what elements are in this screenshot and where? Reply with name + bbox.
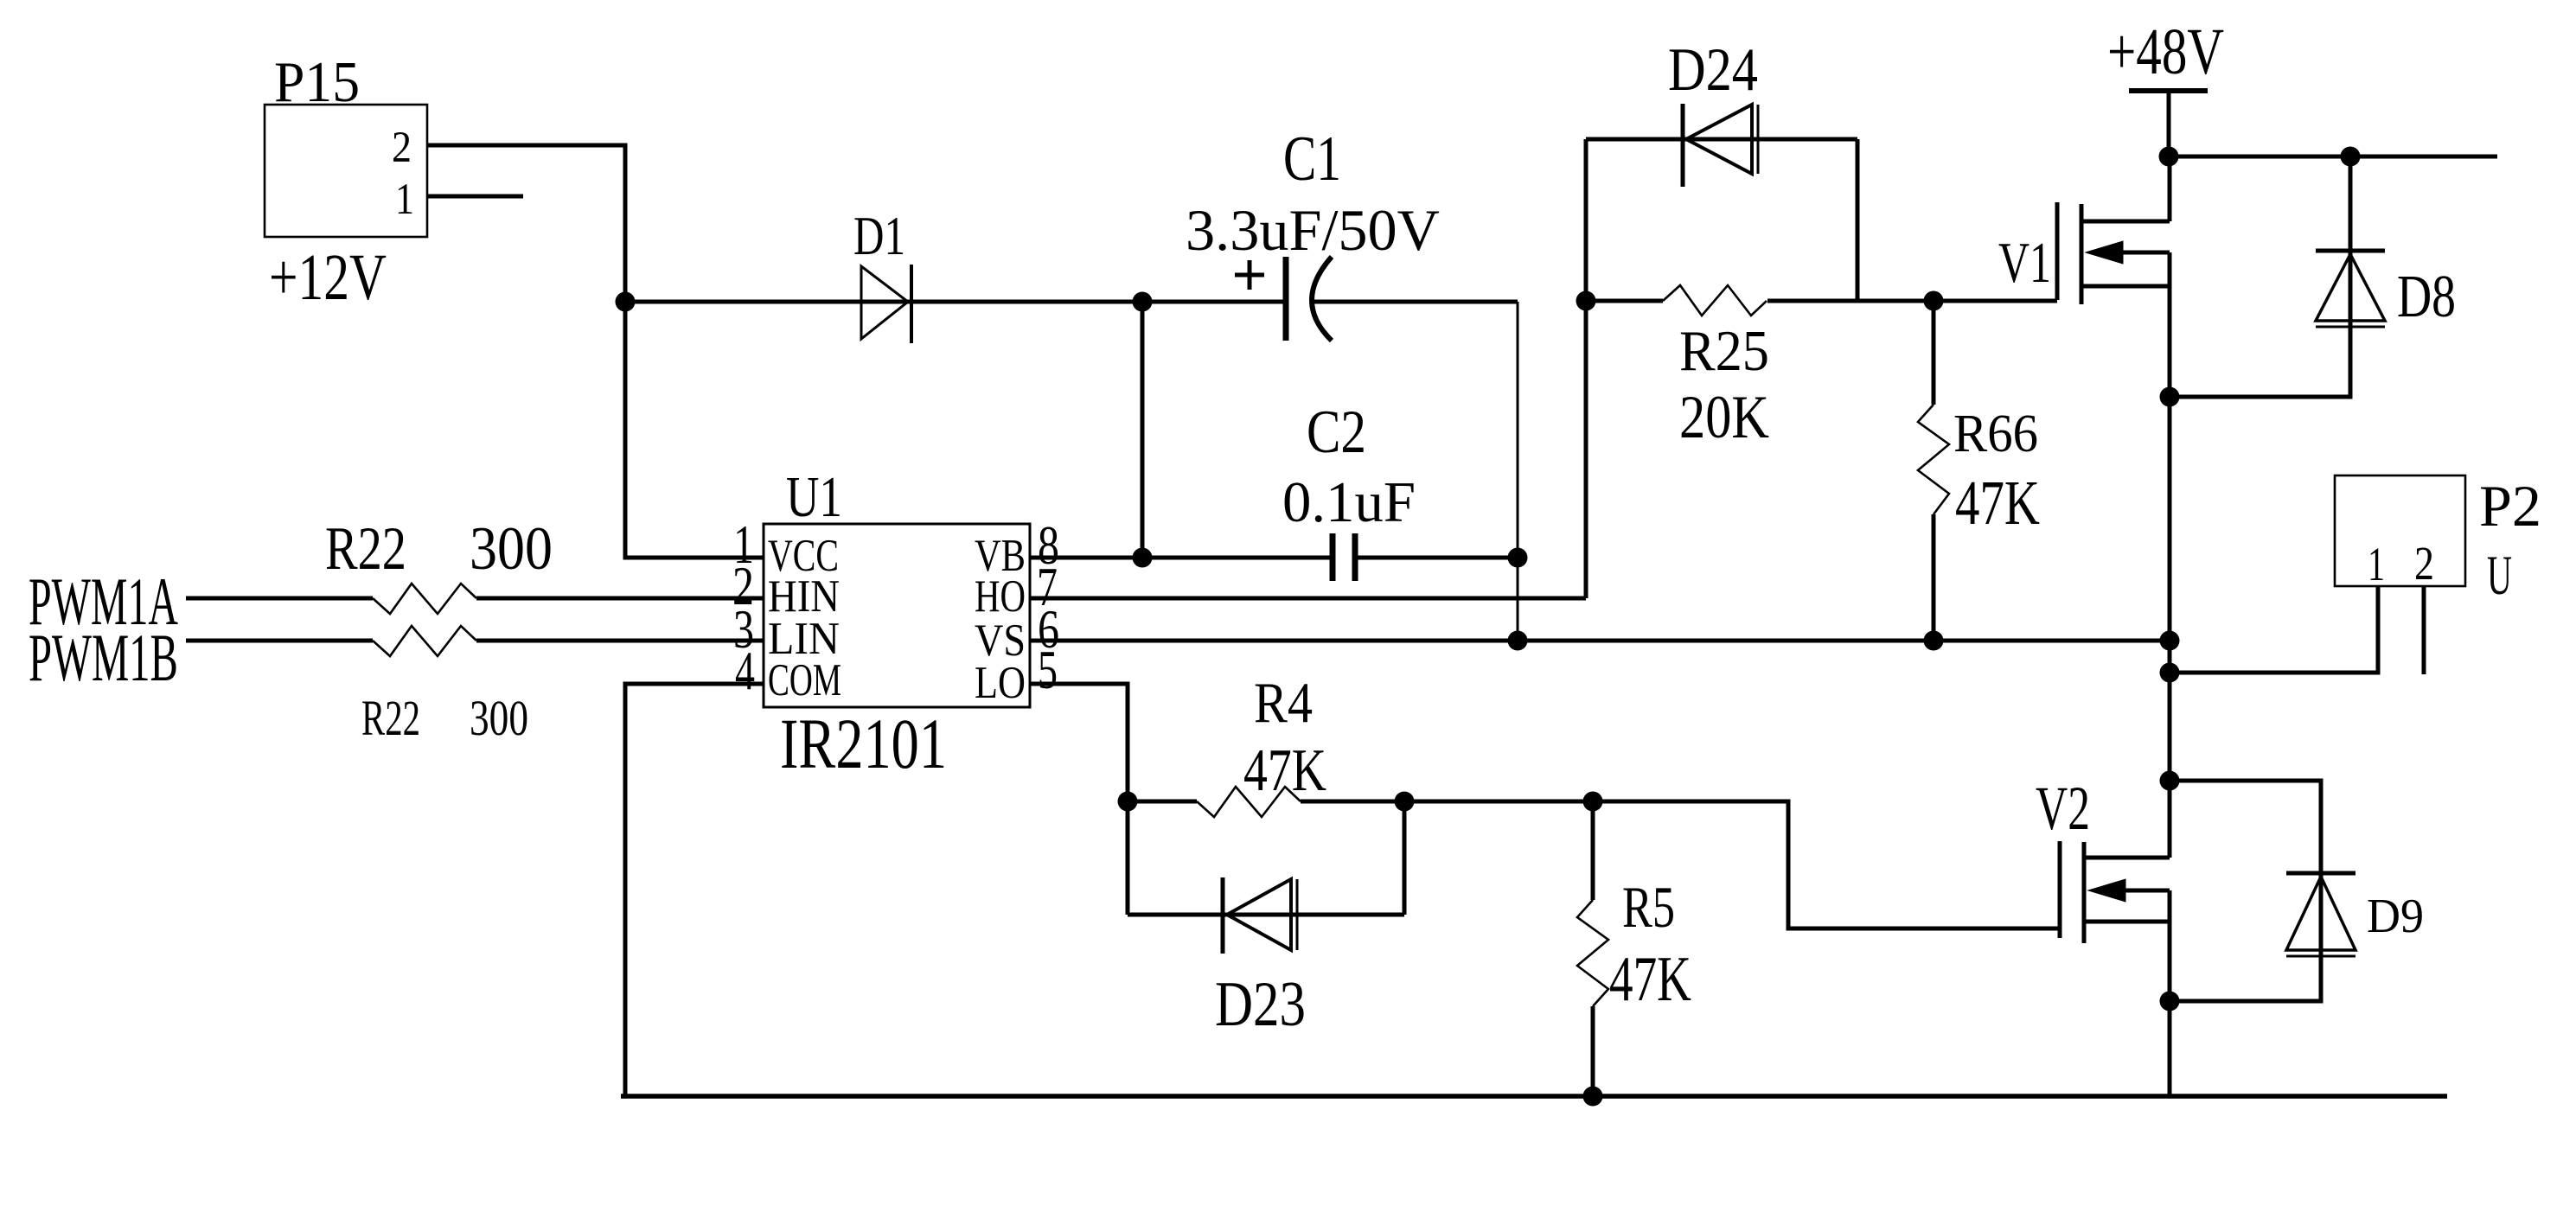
label R22 300 (upper) xyxy=(325,515,553,583)
label U1 xyxy=(786,465,842,529)
wire D9 anode branch xyxy=(2170,950,2321,1001)
wire R5 top lead xyxy=(1591,801,1595,900)
wire D24 cathode drop xyxy=(1856,139,1860,301)
svg-text:COM: COM xyxy=(768,655,841,705)
wire PWM1B to R22 lower xyxy=(186,639,373,643)
junction R5 top / LO row xyxy=(1583,792,1603,812)
label P2 xyxy=(2479,473,2541,539)
svg-text:5: 5 xyxy=(1038,640,1058,700)
wire P15 pin 2 to +12V node xyxy=(427,145,625,302)
wire R25 right lead to V1 gate xyxy=(1767,299,2057,303)
wire D8 anode to V1 source node xyxy=(2170,326,2350,397)
wire D23 right riser xyxy=(1403,801,1407,915)
diode D24 xyxy=(1683,104,1758,187)
wire D9 cathode branch (through diode) xyxy=(2170,781,2321,950)
svg-text:4: 4 xyxy=(735,641,755,701)
wire R4 right lead xyxy=(1301,800,1404,804)
junction R25 right / R66 top xyxy=(1924,291,1944,311)
pin 7 number xyxy=(1037,557,1058,617)
junction R4 right / D23 xyxy=(1395,792,1415,812)
junction D1 cathode / VB riser xyxy=(1133,292,1153,312)
pin number 1 of P2 xyxy=(2368,538,2385,590)
svg-text:D24: D24 xyxy=(1668,36,1758,104)
svg-text:C1: C1 xyxy=(1283,124,1341,195)
resistor R66 xyxy=(1918,405,1949,514)
net label +12V xyxy=(269,241,387,314)
pin name LIN xyxy=(768,614,840,664)
net label PWM1B xyxy=(29,620,178,695)
diode D8 xyxy=(2316,251,2385,327)
label C1 xyxy=(1283,124,1341,195)
svg-text:2: 2 xyxy=(392,124,412,172)
resistor R22 (upper) xyxy=(373,584,476,614)
pin 2 number xyxy=(732,556,754,616)
ground rail xyxy=(621,1094,2447,1099)
label V1 xyxy=(1998,231,2051,295)
pin name LO xyxy=(975,658,1026,708)
wire +48V lead xyxy=(2167,91,2171,156)
label D23 xyxy=(1215,969,1306,1040)
label IR2101 xyxy=(780,704,947,783)
diode D23 xyxy=(1223,877,1297,954)
diode D1 xyxy=(861,265,911,343)
pin name VB xyxy=(975,531,1026,581)
svg-text:20K: 20K xyxy=(1679,384,1769,451)
svg-text:R5: R5 xyxy=(1622,874,1675,940)
label R66 xyxy=(1953,405,2038,463)
value 47K of R5 xyxy=(1609,944,1691,1015)
wire R66 top lead xyxy=(1932,301,1936,405)
junction V1 source / D8 anode row xyxy=(2160,387,2180,407)
net label U xyxy=(2487,545,2512,607)
pin 1 number xyxy=(733,514,754,575)
wire V1 drain riser xyxy=(2168,156,2172,221)
capacitor C2 xyxy=(1333,533,1355,581)
wire R22 to U1 HIN pin 2 xyxy=(476,597,764,601)
wire V1 source node to P2 pin 1 xyxy=(2170,586,2378,673)
junction VS row / trunk xyxy=(2160,631,2180,651)
svg-text:2: 2 xyxy=(2414,537,2434,590)
svg-text:47K: 47K xyxy=(1609,944,1691,1015)
svg-text:LO: LO xyxy=(975,658,1026,708)
label D24 xyxy=(1668,36,1758,104)
wire R25 left lead xyxy=(1586,299,1663,303)
pin name HO xyxy=(975,571,1026,622)
pin 5 number xyxy=(1038,640,1058,700)
wire P15 pin 1 stub xyxy=(427,195,523,199)
net label +48V xyxy=(2107,16,2224,88)
label P15 xyxy=(274,50,360,114)
pin 3 number xyxy=(733,599,754,660)
pin name COM xyxy=(768,655,841,705)
label V2 xyxy=(2036,774,2090,843)
label D1 xyxy=(853,205,905,266)
pin number 2 of P15 xyxy=(392,124,412,172)
wire D23 left riser xyxy=(1126,801,1130,915)
svg-text:R22: R22 xyxy=(361,690,420,746)
resistor R22 (lower) xyxy=(373,626,476,656)
svg-text:D23: D23 xyxy=(1215,969,1306,1040)
wire HO riser xyxy=(1584,139,1588,598)
value 3.3uF/50V xyxy=(1186,197,1440,263)
connector P15 xyxy=(265,105,427,237)
svg-text:D1: D1 xyxy=(853,205,905,266)
label R5 xyxy=(1622,874,1675,940)
connector P2 xyxy=(2335,475,2465,586)
svg-text:R66: R66 xyxy=(1953,405,2038,463)
label R4 xyxy=(1254,671,1313,735)
wire R66 bottom lead xyxy=(1932,514,1936,641)
power symbol +48V xyxy=(2129,88,2208,93)
label D9 xyxy=(2367,890,2424,943)
svg-text:P15: P15 xyxy=(274,50,360,114)
wire +12V node down to U1 VCC pin 1 xyxy=(625,302,764,558)
wire PWM1A to R22 xyxy=(186,597,373,601)
diode D9 xyxy=(2286,873,2355,956)
junction +12V node xyxy=(616,292,636,312)
svg-text:1: 1 xyxy=(395,175,414,224)
svg-text:R22: R22 xyxy=(325,515,406,583)
junction C2 right / VS riser xyxy=(1508,548,1528,568)
wire D8 cathode riser (through diode) xyxy=(2349,156,2353,326)
svg-text:R4: R4 xyxy=(1254,671,1313,735)
wire R22 lower to U1 LIN pin 3 xyxy=(476,639,764,643)
pin name HIN xyxy=(768,571,840,622)
label R25 xyxy=(1679,319,1769,383)
svg-text:IR2101: IR2101 xyxy=(780,704,947,783)
wire D23 row (through diode) xyxy=(1128,913,1404,917)
wire C1 negative plate to VS riser xyxy=(1314,300,1518,304)
junction HO riser / R25 left xyxy=(1576,291,1596,311)
svg-text:1: 1 xyxy=(2368,538,2385,590)
resistor R4 xyxy=(1197,787,1301,817)
svg-text:C2: C2 xyxy=(1307,399,1366,466)
junction P2 row / trunk xyxy=(2160,663,2180,683)
capacitor C1 (polarized) xyxy=(1235,257,1332,341)
wire +12V node to C1 positive plate (through D1) xyxy=(625,300,1283,304)
pin 4 number xyxy=(735,641,755,701)
pin name VCC xyxy=(768,531,839,581)
svg-text:47K: 47K xyxy=(1955,468,2040,538)
wire U1 VB pin 8 to C2 left plate xyxy=(1030,556,1333,560)
svg-text:+12V: +12V xyxy=(269,241,387,314)
svg-text:300: 300 xyxy=(470,515,553,583)
junction VB riser / VB row xyxy=(1133,548,1153,568)
net label PWM1A xyxy=(29,564,178,639)
label D8 xyxy=(2397,264,2456,330)
value 47K of R66 xyxy=(1955,468,2040,538)
svg-text:+48V: +48V xyxy=(2107,16,2224,88)
svg-text:HO: HO xyxy=(975,571,1026,622)
wire P2 pin 2 stub xyxy=(2422,586,2426,674)
wire U1 COM pin 4 to ground rail xyxy=(625,684,764,1095)
wire D24 anode row xyxy=(1586,137,1857,142)
wire LO row to V2 gate xyxy=(1404,801,2060,928)
junction R5 bottom / ground rail xyxy=(1583,1087,1603,1107)
junction D8 top / top rail xyxy=(2341,147,2361,167)
value 20K xyxy=(1679,384,1769,451)
wire V1 source trunk down to V2 drain xyxy=(2168,252,2172,858)
label C2 xyxy=(1307,399,1366,466)
pin 8 number xyxy=(1038,515,1059,576)
wire R4 left lead xyxy=(1128,800,1197,804)
resistor R5 xyxy=(1577,900,1608,1006)
wire VB riser (D1 cathode to VB) xyxy=(1141,302,1145,558)
junction LO riser / R4 left / D23 xyxy=(1118,792,1138,812)
svg-text:P2: P2 xyxy=(2479,473,2541,539)
svg-text:U1: U1 xyxy=(786,465,842,529)
junction R66 bottom / VS row xyxy=(1924,631,1944,651)
svg-text:PWM1B: PWM1B xyxy=(29,620,178,695)
pin name VS xyxy=(975,616,1026,666)
wire U1 LO pin 5 down xyxy=(1030,684,1128,801)
MOSFET V1 xyxy=(2057,202,2170,304)
svg-text:V1: V1 xyxy=(1998,231,2051,295)
resistor R25 xyxy=(1663,285,1767,316)
pin number 1 of P15 xyxy=(395,175,414,224)
svg-text:D8: D8 xyxy=(2397,264,2456,330)
svg-text:0.1uF: 0.1uF xyxy=(1282,470,1416,534)
svg-text:D9: D9 xyxy=(2367,890,2424,943)
svg-text:U: U xyxy=(2487,545,2512,607)
wire VS riser (C1/C2 to VS net) xyxy=(1517,302,1519,641)
junction +48V / top rail xyxy=(2159,147,2179,167)
wire U1 VS pin 6 to V1 source node xyxy=(1030,639,2170,643)
junction VS riser / VS row xyxy=(1508,631,1528,651)
IC U1 body xyxy=(764,524,1030,707)
wire V2 source trunk down to ground rail xyxy=(2168,890,2172,1095)
svg-text:V2: V2 xyxy=(2036,774,2090,843)
svg-text:3.3uF/50V: 3.3uF/50V xyxy=(1186,197,1440,263)
junction trunk / D9 anode row xyxy=(2160,992,2180,1011)
MOSFET V2 xyxy=(2060,841,2170,943)
value 0.1uF xyxy=(1282,470,1416,534)
wire U1 HO pin 7 to HO riser xyxy=(1030,597,1586,601)
wire C2 right plate to VS riser xyxy=(1355,556,1518,560)
value 47K of R4 xyxy=(1243,737,1326,804)
pin 6 number xyxy=(1038,599,1059,660)
label R22 300 (lower) xyxy=(361,690,528,746)
svg-text:300: 300 xyxy=(470,690,528,746)
svg-text:47K: 47K xyxy=(1243,737,1326,804)
wire R5 bottom lead xyxy=(1591,1006,1595,1096)
top rail from +48V xyxy=(2169,155,2497,159)
junction trunk / D9 cathode row xyxy=(2160,771,2180,791)
pin number 2 of P2 xyxy=(2414,537,2434,590)
svg-text:R25: R25 xyxy=(1679,319,1769,383)
